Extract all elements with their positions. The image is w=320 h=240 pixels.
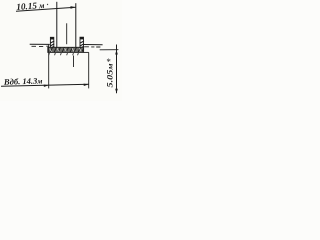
bottom dimension arrowhead right — [84, 84, 89, 86]
slab bottom edge extension to right — [84, 51, 89, 53]
left extension / pier line — [56, 2, 58, 48]
tick after м — [46, 4, 49, 5]
bottom dimension line — [1, 84, 89, 86]
bottom-left extension line — [48, 44, 50, 88]
top dimension line — [16, 7, 76, 11]
right dimension extension line — [100, 49, 119, 51]
bottom slab (hatched) — [48, 47, 84, 52]
stub line below slab — [73, 56, 75, 68]
centerline — [66, 23, 68, 44]
left wall (hatched) — [50, 37, 54, 48]
right water line — [84, 44, 103, 46]
svg-text:5.05м: 5.05м — [105, 64, 115, 88]
bottom-right extension line — [88, 52, 90, 88]
left water line — [30, 43, 50, 45]
right vertical dimension line — [116, 45, 118, 94]
svg-text:Вдб. 14.3м: Вдб. 14.3м — [3, 75, 43, 86]
right dimension arrow up — [115, 50, 118, 55]
right wall (hatched) — [80, 37, 84, 48]
right dimension arrow down — [115, 89, 118, 94]
left water dashes — [32, 45, 49, 47]
centerline dot — [66, 48, 68, 49]
right extension / pier line — [75, 3, 77, 47]
top dimension arrowhead — [71, 6, 76, 9]
svg-text:*: * — [106, 57, 111, 67]
bottom dimension arrowhead mid — [44, 85, 49, 87]
ground hatch ticks below slab — [49, 53, 79, 55]
svg-text:10.15м: 10.15м — [16, 0, 45, 12]
right water dashes — [84, 46, 100, 48]
